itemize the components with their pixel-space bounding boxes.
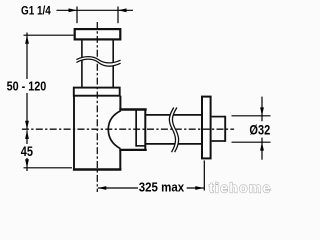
dimension diameter 32 top extension xyxy=(232,115,271,117)
outlet pipe end xyxy=(224,116,226,142)
dimension diameter 32 up arrow xyxy=(260,142,264,150)
dimension G1 1/4 left arrow xyxy=(69,8,78,12)
top nut G1 1/4 xyxy=(75,29,121,39)
body left edge xyxy=(73,96,75,169)
svg-text:tiehome: tiehome xyxy=(209,181,272,196)
outlet pipe top edge (after flange) xyxy=(212,116,226,118)
outlet nut left face xyxy=(135,110,137,147)
svg-text:325 max: 325 max xyxy=(139,179,185,194)
outlet boss bottom ledge xyxy=(119,149,146,151)
horizontal centerline xyxy=(22,128,234,130)
break symbol on outlet pipe xyxy=(169,108,178,153)
outlet nut bottom face xyxy=(136,145,145,147)
dimension 50-120 line lower xyxy=(26,93,28,129)
body right edge lower xyxy=(119,150,121,169)
vertical centerline xyxy=(96,22,98,192)
dimension 325 max right arrow xyxy=(195,186,204,190)
collar at top of body xyxy=(74,88,120,96)
dimension G1 1/4 right arrow xyxy=(118,8,127,12)
outlet pipe bottom edge (before flange) xyxy=(145,143,202,145)
dimension 50-120 line upper xyxy=(26,33,28,80)
dimension 325 max line left xyxy=(98,187,138,189)
dimension G1 1/4 line xyxy=(57,9,134,11)
dimension G1 1/4 right tick xyxy=(117,7,119,24)
dimension diameter 32 upper line xyxy=(261,97,263,122)
dimension 325 max line right xyxy=(187,187,204,189)
dimension 45 down arrow xyxy=(25,159,29,168)
dimension diameter 32 bottom extension xyxy=(232,141,271,143)
outlet pipe bottom edge (after flange) xyxy=(212,140,226,142)
dimension 50-120 top extension line xyxy=(24,34,74,36)
body right edge upper xyxy=(119,96,121,110)
dimension 45 bottom extension line xyxy=(24,167,73,169)
dimension G1 1/4 left tick xyxy=(76,7,78,24)
body bottom xyxy=(73,168,122,170)
dimension 45 line upper xyxy=(26,130,28,144)
bell mouth curve xyxy=(108,111,121,149)
dimension 50-120 up arrow xyxy=(25,35,29,44)
outlet nut right face xyxy=(144,110,146,150)
flange nut on outlet pipe xyxy=(202,97,211,159)
break symbol on inlet pipe xyxy=(76,57,120,67)
dimension 45 line lower xyxy=(26,158,28,171)
outlet boss top ledge xyxy=(119,108,146,110)
svg-text:G1 1/4: G1 1/4 xyxy=(21,5,51,18)
dimension diameter 32 down arrow xyxy=(260,107,264,115)
dimension diameter 32 lower line xyxy=(261,138,263,160)
inlet pipe right edge xyxy=(112,41,114,88)
svg-text:50 - 120: 50 - 120 xyxy=(7,79,47,94)
dimension 325 max left arrow xyxy=(98,186,107,190)
svg-text:Ø32: Ø32 xyxy=(249,123,270,138)
inlet pipe left edge xyxy=(81,41,83,88)
dimension 50-120 down arrow xyxy=(25,121,29,130)
outlet pipe top edge (before flange) xyxy=(145,114,202,116)
svg-text:45: 45 xyxy=(21,144,34,159)
dimension 45 up arrow xyxy=(25,130,29,139)
dimension 325 max right extension xyxy=(203,160,205,190)
